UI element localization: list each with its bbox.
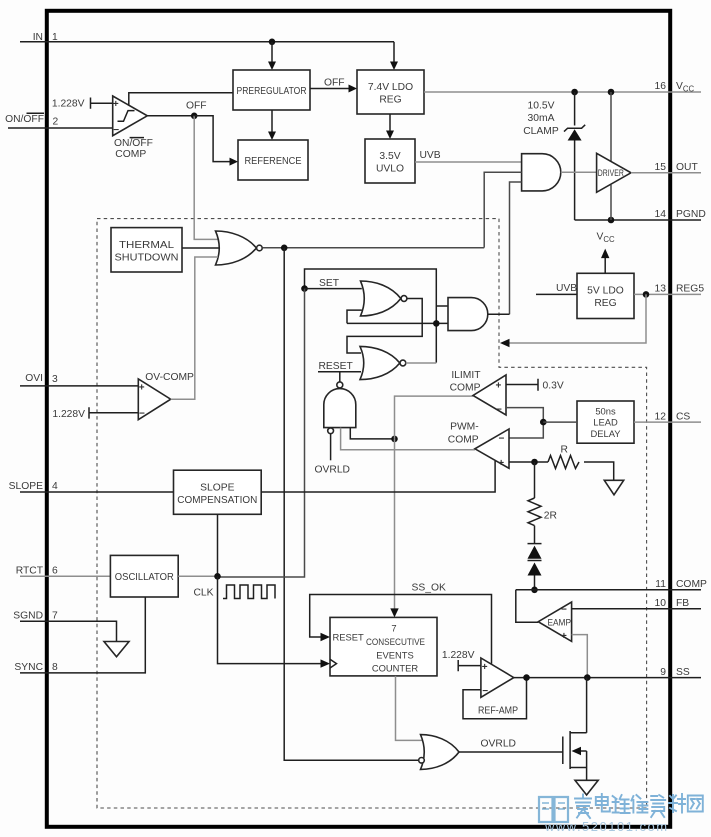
nor-gate G1 (shutdown NOR, 3-input) [216,231,263,265]
svg-text:OVRLD: OVRLD [315,465,350,476]
wire lead delay to CS node [543,421,577,423]
svg-text:UVB: UVB [556,283,577,294]
svg-text:1.228V: 1.228V [52,99,85,110]
svg-text:14: 14 [655,209,667,220]
svg-text:SHUTDOWN: SHUTDOWN [115,253,179,264]
pin 13 label [655,284,705,295]
svg-text:OFF: OFF [324,78,345,89]
wire IN to 7.4V LDO [393,42,395,63]
arrow REG5 return [500,339,510,347]
label 10.5V 30mA CLAMP [523,100,559,136]
nand-gate G5 (vertical NAND) [324,382,356,434]
node CLK [214,573,221,580]
arrow into counter top [390,608,398,617]
svg-text:OV-COMP: OV-COMP [145,372,194,383]
svg-text:4: 4 [52,481,58,492]
svg-text:7: 7 [52,611,58,622]
buffer DRIVER [597,153,631,192]
and-gate U-drv (3-input) [522,154,561,191]
node ILIMIT output junction [391,436,398,443]
pin 4 SLOPE label [9,481,58,492]
svg-text:SET: SET [319,278,340,289]
svg-text:DRIVER: DRIVER [598,168,624,178]
block 3.5V UVLO [365,139,415,183]
svg-text:FB: FB [676,598,689,609]
dashed internal boundary [97,219,647,808]
nor-gate G6 (OVRLD output NOR) [419,735,459,770]
wire OVRLD NOR output to MOSFET gate [459,751,563,753]
wire slope compensation to PWM comparator [261,461,495,492]
wire SET to latch NOR1 [305,288,362,290]
wire AND output to driver [561,171,597,173]
label ON/OFF COMP [114,138,153,161]
wire MOSFET source to ground [586,768,588,781]
wire CLK to counter clock input [218,576,323,663]
svg-text:EAMP: EAMP [548,618,572,628]
svg-text:COMP: COMP [448,434,479,445]
wire 2R to diodes [534,526,536,544]
nor-gate G2 (latch top NOR) [361,281,407,316]
resistor 2R [528,498,557,526]
pin 11 COMP line [516,589,701,591]
svg-text:5V LDO: 5V LDO [587,286,624,297]
svg-text:16: 16 [655,81,667,92]
block 50ns LEAD DELAY [577,401,634,443]
1.228V reference tick (ref amp) [442,650,481,671]
svg-text:12: 12 [655,411,667,422]
1.228V reference tick (on/off comp) [52,98,113,110]
block 7.4V LDO REG [357,70,424,114]
svg-text:3.5V: 3.5V [379,151,400,162]
svg-text:REG5: REG5 [676,284,704,295]
pin 11 label [655,579,707,590]
svg-text:OVRLD: OVRLD [481,739,516,750]
pin 15 OUT line [631,172,701,174]
svg-text:8: 8 [52,662,58,673]
error amp EAMP [538,602,571,642]
arrow into counter RESET [321,633,331,641]
ground SGND [104,642,129,657]
wire AND2 output [488,313,510,315]
arrow into 7.4V LDO top [390,62,398,71]
wire OFF node down to logic NOR [194,116,218,240]
node REG5 junction [643,291,650,298]
wire shutdown rail down to output NOR [284,248,419,761]
transistor Q1 (SS discharge MOSFET) [563,731,587,769]
svg-text:30mA: 30mA [528,113,555,124]
node SS-refamp junction [523,674,530,681]
svg-text:CLK: CLK [194,587,214,598]
pin 14 PGND line [575,219,701,221]
wire preregulator to 7.4V LDO [310,88,349,90]
svg-text:OSCILLATOR: OSCILLATOR [115,572,174,583]
svg-text:R: R [561,444,568,455]
arrow into 7.4V LDO left [349,85,358,93]
comparator ILIMIT COMP [473,375,506,416]
wire driver supply rails [610,92,612,220]
resistor R [548,444,579,468]
svg-text:7.4V LDO: 7.4V LDO [368,82,413,93]
svg-text:−: − [113,125,119,136]
node NOR output junction [281,245,288,252]
wire pin2 to comparator [8,127,113,129]
svg-text:THERMAL: THERMAL [119,240,174,251]
wire IN to preregulator [271,42,273,63]
wire diodes to COMP line [534,576,536,590]
node SET junction [301,285,308,292]
wire RTCT line [20,575,110,577]
svg-text:EVENTS: EVENTS [376,650,414,661]
arrow into preregulator top [268,62,276,71]
wire 5V LDO up arrow [604,258,606,273]
wire REF-AMP feedback [463,678,527,719]
svg-text:−: − [499,433,505,444]
svg-text:7: 7 [391,623,396,634]
svg-text:SYNC: SYNC [14,662,43,673]
node SS-eamp junction [584,674,591,681]
node OFF [191,113,198,120]
wire NOR output rail [263,247,485,249]
pin 15 label [655,162,699,173]
zener diode 10.5V clamp [564,125,585,141]
svg-text:CONSECUTIVE: CONSECUTIVE [366,636,425,647]
pin 6 RTCT label [16,566,58,577]
svg-text:ON/OFF: ON/OFF [5,114,44,125]
svg-text:COMPENSATION: COMPENSATION [177,495,257,506]
wire SET node down to CLK node [218,289,305,577]
pin 2 ON/OFF label [5,113,58,127]
pin 8 SYNC label [14,662,58,673]
op-amp REF-AMP [481,658,514,697]
op-amp ON/OFF COMP [113,96,148,136]
wire PWM plus input [509,461,548,463]
svg-text:+: + [482,662,488,673]
svg-text:REFERENCE: REFERENCE [245,156,302,167]
clock waveform glyph [223,585,275,599]
svg-text:RESET: RESET [319,361,354,372]
wire oscillator output [178,575,217,577]
pin 9 SS line [514,677,701,679]
wire IN line [20,41,394,43]
1.228V reference tick (ov comp) [52,407,138,420]
comparator PWM-COMP [475,429,509,469]
pin 9 label [660,667,690,678]
block THERMAL SHUTDOWN [111,228,182,272]
wire RESET stub into NOR2 [318,371,361,373]
wire NAND input from ILIMIT comparator [350,428,394,439]
svg-text:RESET: RESET [333,632,365,643]
svg-text:10.5V: 10.5V [528,100,555,111]
wire SLOPE line [20,491,174,493]
wire AND bottom input from latch AND [510,182,522,314]
pin 12 CS line [634,421,701,423]
arrow into reference left [230,158,239,166]
pin 1 IN label [33,32,58,43]
wire ILIMIT node down to counter [394,439,396,610]
svg-text:11: 11 [655,579,666,590]
label ILIMIT COMP [450,370,482,394]
wire ILIMIT minus to CS node [506,408,543,438]
node VCC-driver junction [608,89,615,96]
pin 16 VCC line [424,91,701,93]
svg-text:SGND: SGND [13,611,43,622]
pin 10 label [655,598,690,609]
svg-text:COUNTER: COUNTER [372,663,419,674]
wire UVB stub to 5V LDO [536,293,577,295]
svg-text:−: − [496,405,502,416]
svg-text:0.3V: 0.3V [543,380,564,391]
svg-text:2: 2 [53,116,59,127]
svg-text:LEAD: LEAD [593,416,618,427]
ground (MOSFET source) [575,780,598,795]
node IN junction [269,39,276,46]
node PWM plus junction [531,459,538,466]
wire REG5 return to logic [508,294,646,343]
wire NOR2 output [406,362,437,364]
svg-text:www.520101.com: www.520101.com [544,819,669,834]
wire counter output to OVRLD NOR [396,676,424,741]
arrow into 3.5V UVLO top [386,131,394,140]
svg-text:REG: REG [594,298,616,309]
block 7 CONSECUTIVE EVENTS COUNTER [330,617,437,676]
block SLOPE COMPENSATION [174,470,262,514]
arrow to VCC [601,249,609,259]
wire slope comp box down to CLK node [217,514,219,576]
svg-text:−: − [482,686,488,697]
diode D1 [528,544,542,559]
node VCC-zener junction [571,89,578,96]
diode D2 [528,561,542,576]
svg-text:COMP: COMP [676,579,707,590]
svg-text:13: 13 [655,284,667,295]
svg-text:UVB: UVB [420,150,441,161]
svg-text:OFF: OFF [186,101,207,112]
node COMP junction [531,587,538,594]
node latch Q junction [433,320,440,327]
svg-text:DELAY: DELAY [590,428,621,439]
svg-text:15: 15 [655,162,667,173]
wire ILIMIT comparator output [395,396,474,439]
svg-text:+: + [113,99,119,110]
op-amp OV-COMP [138,379,170,420]
svg-text:CLAMP: CLAMP [523,126,559,137]
wire comparator output to OFF node [147,115,194,117]
wire NAND output to RESET line [339,372,341,382]
block REFERENCE [238,140,308,180]
svg-text:CS: CS [676,411,690,422]
pin 13 REG5 line [634,293,701,295]
svg-text:PREREGULATOR: PREREGULATOR [237,86,307,97]
svg-text:+: + [139,382,145,393]
svg-text:1.228V: 1.228V [52,409,85,420]
wire 7.4V LDO to 3.5V UVLO [389,114,391,132]
nor-gate G3 (latch bottom NOR) [360,346,406,379]
node driver-PGND junction [608,217,615,224]
and-gate G4 (latch AND) [448,298,488,331]
svg-text:1.228V: 1.228V [442,650,475,661]
wire OFF node to reference [194,116,229,162]
block OSCILLATOR [110,555,178,597]
wire COMP down to EAMP apex [516,590,538,623]
label PWM- COMP [448,421,479,445]
wire NAND inverted input from OVRLD [330,434,332,461]
wire OVI line [20,385,138,387]
wire OV-COMP output up to NOR input [171,257,218,399]
wire AND middle input from logic [484,172,521,247]
wire zener branch [574,92,576,220]
svg-text:6: 6 [52,566,58,577]
svg-text:SLOPE: SLOPE [9,481,43,492]
watermark text [575,794,703,818]
svg-text:3: 3 [52,374,58,385]
wire UVB to AND gate [415,161,522,163]
arrow into counter clock [321,659,331,667]
svg-text:+: + [561,631,567,642]
svg-text:SS: SS [676,667,690,678]
svg-text:OUT: OUT [676,162,698,173]
pin 12 label [655,411,691,422]
wire NAND input from PWM comparator [341,428,475,450]
wire SGND line [20,621,117,641]
wire SYNC line to oscillator [20,597,145,673]
pin 16 label [655,81,695,93]
0.3V reference tick [506,379,564,392]
pin 10 FB line [572,608,701,610]
svg-text:−: − [139,408,145,419]
wire AND2 top input tap [436,305,448,307]
ground (R return) [604,480,623,495]
svg-text:10: 10 [655,598,667,609]
wire EAMP plus to SS node [572,635,588,678]
svg-text:ON/OFF: ON/OFF [114,138,153,149]
wire SET rail [305,269,437,363]
svg-text:UVLO: UVLO [376,164,404,175]
svg-text:SS_OK: SS_OK [412,582,446,593]
svg-text:+: + [496,381,502,392]
wire latch Q rail [347,310,448,323]
pin 14 label [655,209,706,220]
svg-text:2R: 2R [544,510,557,521]
svg-text:REF-AMP: REF-AMP [478,705,518,716]
svg-text:+: + [498,458,504,469]
svg-text:REG: REG [379,95,401,106]
svg-text:PWM-: PWM- [450,421,479,432]
pin 3 OVI label [25,373,58,385]
wire PWM node down to 2R [534,462,536,498]
svg-text:−: − [561,605,567,616]
block 5V LDO REG [577,273,634,318]
pin 7 SGND label [13,611,58,622]
svg-text:PGND: PGND [676,209,706,220]
svg-text:OVI: OVI [25,373,43,384]
svg-text:COMP: COMP [450,383,481,394]
svg-text:RTCT: RTCT [16,566,44,577]
wire preregulator to reference [271,110,273,133]
svg-text:9: 9 [660,667,666,678]
wire NOR1 output to NOR2 input (feedback) [347,299,422,354]
svg-text:ILIMIT: ILIMIT [451,370,481,381]
node CS sense junction [540,419,547,426]
wire MOSFET drain to SS node [586,678,588,733]
block PREREGULATOR [233,70,310,110]
wire R to ground [584,462,614,480]
svg-text:COMP: COMP [115,149,146,160]
wire SS_OK net [310,595,492,664]
svg-text:SLOPE: SLOPE [200,482,234,493]
watermark book icon [539,797,568,822]
arrow into reference top [268,132,276,141]
wire thermal shutdown to NOR [182,247,219,249]
wire comparator top to preregulator [129,93,233,106]
svg-text:50ns: 50ns [595,405,616,416]
